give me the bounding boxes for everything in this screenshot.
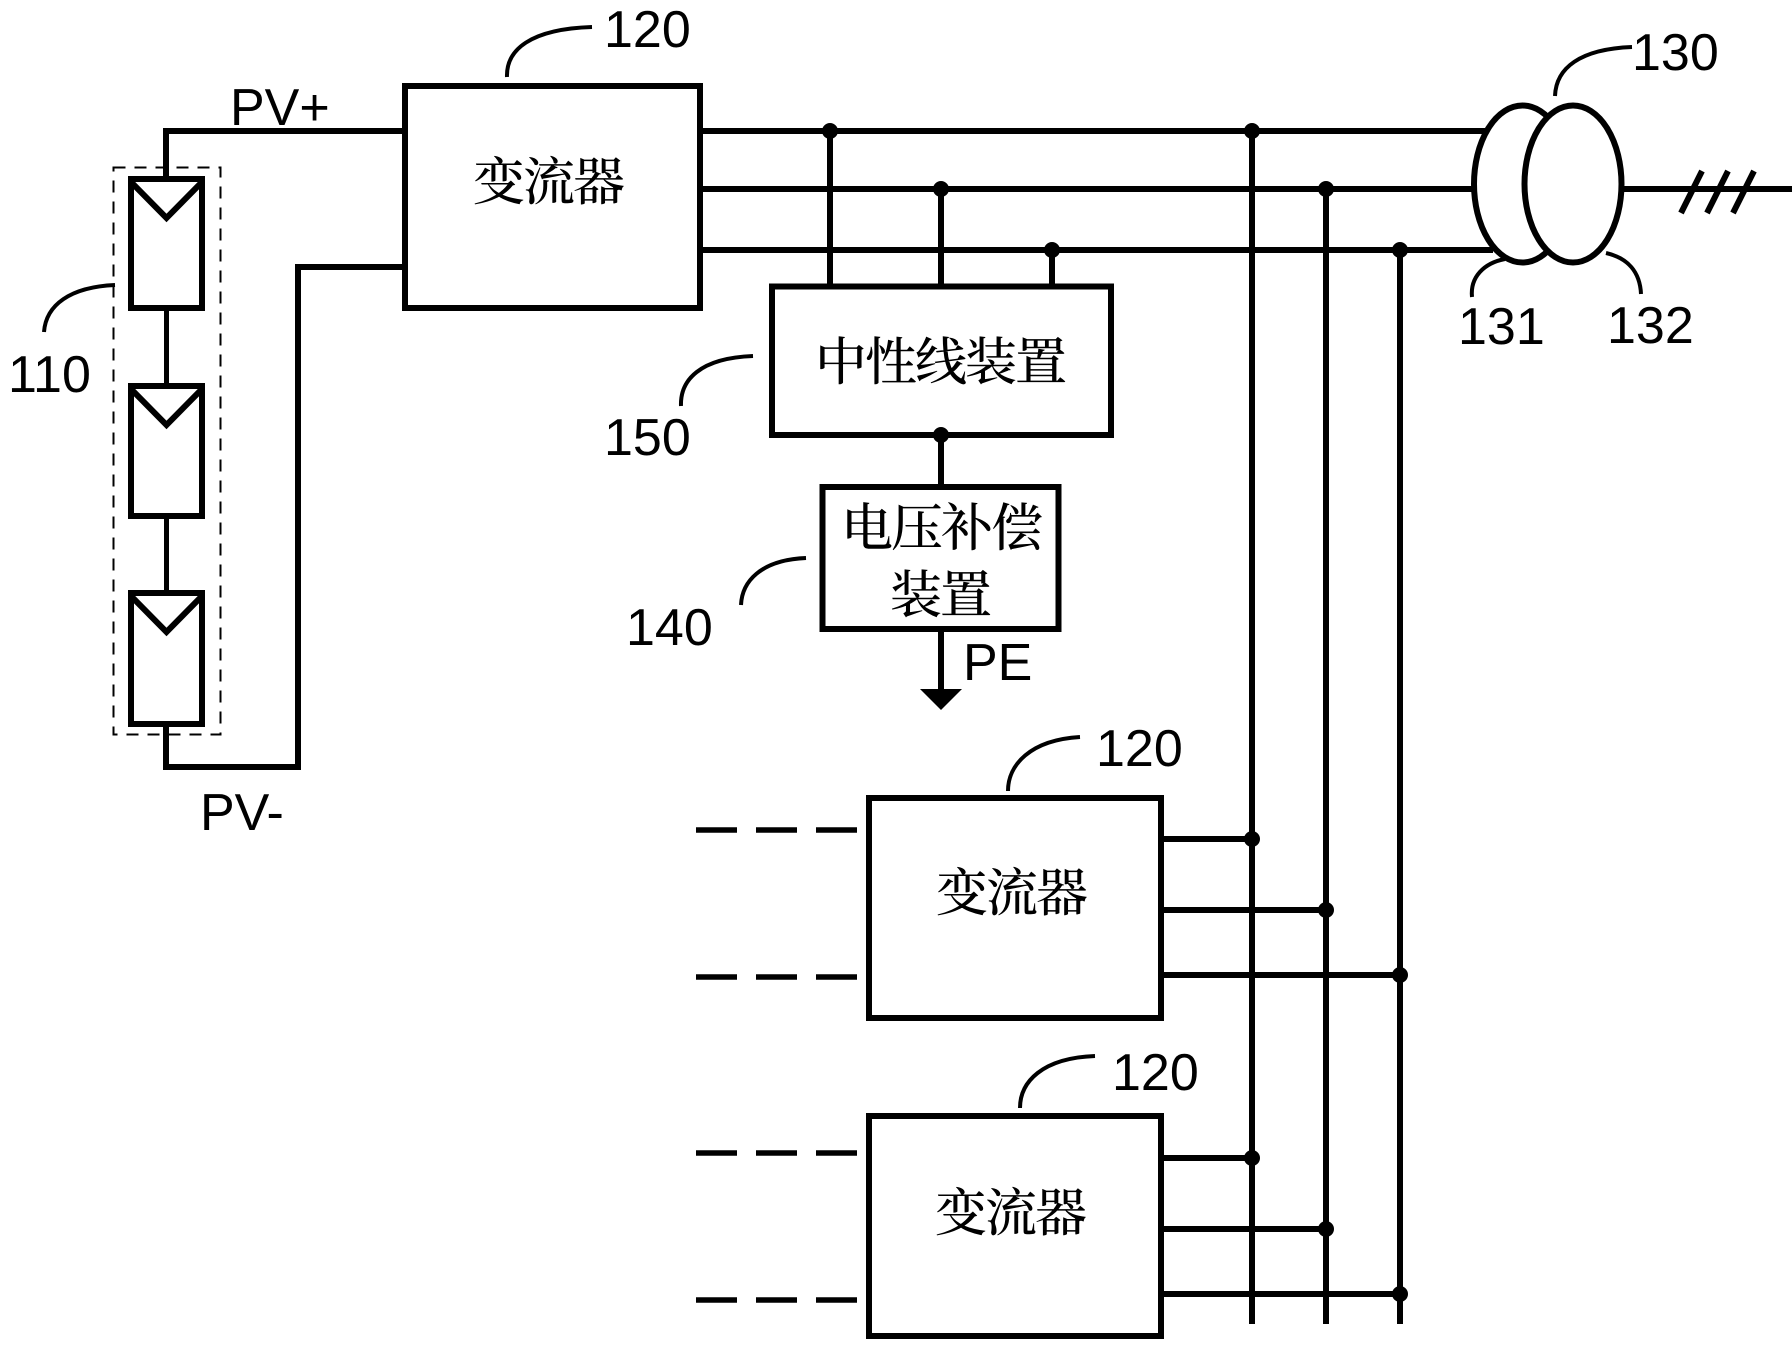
wire: box 140 to PE ground <box>938 629 944 692</box>
text 变流器 in U1 <box>475 156 624 205</box>
junction dot U3 O3-B3 <box>1392 1286 1408 1302</box>
leader arc for label 120 (U1) <box>507 27 592 77</box>
bus B3 vertical (phase 3) <box>1397 250 1403 1324</box>
junction dot at bottom of box 150 <box>933 427 949 443</box>
text 电压补偿 (line1) in box 140 <box>847 502 1042 550</box>
wire U2 output 2 <box>1161 907 1326 913</box>
wire U2 output 1 <box>1161 836 1252 842</box>
wire PV+ : panel1 top to converter U1 input <box>166 131 402 179</box>
svg-text:131: 131 <box>1458 298 1545 356</box>
leader arc for label 120 (U2) <box>1008 737 1080 791</box>
wire: series connector panel1-panel2 <box>164 311 169 386</box>
leader arc for label 140 <box>741 558 806 605</box>
wire U2 output 3 <box>1161 972 1400 978</box>
wire L1: phase line 1 from U1 to transformer <box>700 128 1486 134</box>
ground symbol PE (filled triangle) <box>920 689 962 710</box>
converter U3 box (120, bottom) <box>869 1116 1161 1336</box>
voltage compensation device box 140 <box>823 487 1059 629</box>
wire: grid output line from transformer <box>1624 186 1792 192</box>
bus B1 vertical (phase 1) <box>1249 131 1255 1324</box>
dashed input wire 1 to U3 <box>696 1150 866 1156</box>
svg-text:110: 110 <box>8 346 91 404</box>
text 变流器 in U3 <box>937 1187 1086 1236</box>
svg-text:120: 120 <box>1096 720 1183 778</box>
svg-text:120: 120 <box>1112 1044 1199 1102</box>
leader arc for label 110 <box>44 285 115 332</box>
junction dot B2-L2 <box>1318 181 1334 197</box>
converter U2 box (120, middle) <box>869 798 1161 1018</box>
junction dot U2 O1-B1 <box>1244 831 1260 847</box>
wire: drop from L1 into neutral device 150 <box>827 131 833 287</box>
junction dot B1-L1 <box>1244 123 1260 139</box>
neutral line device box 150 <box>772 287 1111 436</box>
svg-text:PE: PE <box>963 634 1032 692</box>
wire: series connector panel2-panel3 <box>164 519 169 593</box>
PV string 110 dashed boundary <box>114 168 221 735</box>
solar cell panel 1 of string 110 <box>131 179 202 308</box>
leader arc for label 120 (U3) <box>1020 1056 1095 1108</box>
wire: drop from L2 into neutral device 150 <box>938 189 944 287</box>
transformer 130: primary winding circle 131 <box>1474 106 1571 263</box>
dashed input wire 2 to U3 <box>696 1297 866 1303</box>
junction dot on L3 at x=1052 <box>1044 242 1060 258</box>
text 中性线装置 in box 150 <box>820 336 1065 384</box>
converter U1 box (120) <box>405 86 700 308</box>
solar cell panel 2 of string 110 <box>131 386 202 516</box>
leader arc for label 130 <box>1555 47 1632 96</box>
svg-text:120: 120 <box>604 1 691 59</box>
svg-text:150: 150 <box>604 409 691 467</box>
grid break slashes /// <box>1681 171 1754 213</box>
leader arc for label 150 <box>681 356 753 406</box>
bus B2 vertical (phase 2) <box>1323 189 1329 1324</box>
wire L2: phase line 2 from U1 to transformer <box>700 186 1475 192</box>
junction dot U2 O2-B2 <box>1318 902 1334 918</box>
text 变流器 in U2 <box>938 867 1087 916</box>
wire U3 output 2 <box>1161 1226 1326 1232</box>
junction dot B3-L3 <box>1392 242 1408 258</box>
wire PV- : panel3 bottom to converter U1 lower input <box>166 267 402 767</box>
svg-text:PV+: PV+ <box>230 79 330 137</box>
transformer 130: secondary winding circle 132 <box>1525 106 1622 263</box>
wire U3 output 3 <box>1161 1291 1400 1297</box>
dashed input wire 2 to U2 <box>696 974 866 980</box>
solar cell panel 3 of string 110 <box>131 593 202 724</box>
junction dot U3 O2-B2 <box>1318 1221 1334 1237</box>
wire L3: phase line 3 from U1 to transformer <box>700 247 1493 253</box>
junction dot on L2 at x=941 <box>933 181 949 197</box>
junction dot U3 O1-B1 <box>1244 1150 1260 1166</box>
junction dot U2 O3-B3 <box>1392 967 1408 983</box>
svg-text:130: 130 <box>1632 24 1719 82</box>
leader arc for label 131 <box>1472 259 1505 297</box>
wire U3 output 1 <box>1161 1155 1252 1161</box>
svg-text:132: 132 <box>1607 297 1694 355</box>
wire: drop from L3 into neutral device 150 <box>1049 250 1055 287</box>
svg-text:PV-: PV- <box>200 784 284 842</box>
dashed input wire 1 to U2 <box>696 827 866 833</box>
wire: box 150 to box 140 <box>938 435 944 487</box>
svg-text:140: 140 <box>626 599 713 657</box>
text 装置 (line2) in box 140 <box>892 569 990 617</box>
junction dot on L1 at x=830 <box>822 123 838 139</box>
leader arc for label 132 <box>1606 253 1641 294</box>
